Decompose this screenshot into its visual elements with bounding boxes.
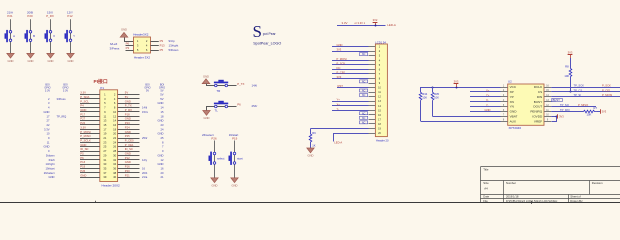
wire Y-: [470, 106, 501, 108]
svg-text:P_MOSI: P_MOSI: [80, 130, 91, 134]
LCD pin numbers: [378, 46, 381, 135]
svg-text:BUSY: BUSY: [553, 98, 561, 102]
svg-text:GND: GND: [125, 152, 131, 156]
net label 21/A / P21: [7, 10, 13, 18]
svg-text:X+: X+: [486, 88, 490, 92]
P1 left GPIO annotation columns: [44, 83, 69, 179]
wire GND: [470, 111, 501, 113]
wire LCD pin 5: [332, 64, 375, 66]
ground (power port, up): [202, 74, 210, 83]
svg-text:24: 24: [161, 127, 164, 131]
net label 20/B / P20: [27, 10, 33, 18]
wire pin5: [126, 50, 134, 52]
power port 3V2: [373, 18, 378, 27]
title block: [480, 167, 620, 203]
wire LCD pin 15: [332, 110, 375, 112]
wire P1 pin 11: [80, 116, 100, 118]
wire CS / TP_CS: [551, 91, 620, 93]
connector P1 Header 20X2: [100, 86, 120, 187]
ground: [211, 178, 218, 188]
wire P1 pin 14: [118, 120, 140, 122]
wire P1 pin 38: [118, 172, 140, 174]
wire P1 pin 12: [118, 116, 140, 118]
no-connect label: [360, 112, 368, 116]
power port 3V3 (right flag): [601, 109, 607, 113]
svg-text:10: 10: [113, 110, 116, 114]
switch TR: [214, 80, 228, 87]
svg-text:3.3V: 3.3V: [80, 91, 86, 95]
svg-text:37: 37: [103, 171, 106, 175]
svg-text:GND: GND: [308, 154, 314, 158]
svg-text:3/Press: 3/Press: [57, 97, 67, 101]
svg-text:P3: P3: [126, 46, 130, 50]
resistor R8 pull-up: [564, 58, 571, 92]
svg-text:GND: GND: [212, 183, 218, 187]
stub LCD pin 11 (NC): [369, 92, 376, 94]
svg-text:XP: XP: [510, 90, 514, 94]
svg-text:16: 16: [113, 123, 116, 127]
svg-text:GND: GND: [232, 183, 238, 187]
svg-text:36: 36: [113, 166, 116, 170]
ground: [27, 53, 34, 63]
svg-text:12/y: 12/y: [142, 158, 148, 162]
svg-text:P12: P12: [125, 156, 130, 160]
svg-text:P_RX: P_RX: [46, 14, 54, 18]
svg-text:GND: GND: [125, 160, 131, 164]
svg-text:30: 30: [113, 153, 116, 157]
svg-text:P_CE0: P_CE0: [125, 138, 134, 142]
svg-text:5V: 5V: [160, 93, 163, 97]
svg-text:19: 19: [103, 132, 106, 136]
svg-text:NC: NC: [362, 80, 366, 83]
svg-text:GND: GND: [158, 101, 164, 105]
wire button X: [50, 19, 52, 53]
svg-text:R34: R34: [422, 92, 427, 96]
svg-text:Y+: Y+: [337, 98, 341, 102]
svg-text:23: 23: [161, 123, 164, 127]
svg-text:19/start: 19/start: [46, 166, 55, 170]
wire VBAT: [433, 116, 501, 118]
switch SW-X: [45, 30, 52, 42]
wire P1 pin 28: [118, 151, 140, 153]
svg-text:GND: GND: [125, 117, 131, 121]
svg-text:BUSY: BUSY: [534, 100, 542, 104]
wire P1 pin 9: [80, 111, 100, 113]
svg-text:R8: R8: [565, 64, 569, 68]
svg-text:27: 27: [47, 119, 50, 123]
svg-text:3V3: 3V3: [559, 114, 564, 118]
svg-text:B: B: [33, 34, 35, 38]
svg-text:25: 25: [103, 145, 106, 149]
wire button B: [30, 19, 32, 53]
svg-text:10: 10: [47, 132, 50, 136]
wire P1 pin 8: [118, 107, 140, 109]
svg-text:10K: 10K: [587, 113, 592, 117]
stub LCD pin 18 (NC): [369, 123, 376, 125]
svg-text:LED-A: LED-A: [387, 23, 396, 27]
svg-text:3.3V: 3.3V: [80, 125, 86, 129]
stub LCD pin 17 (NC): [369, 119, 376, 121]
svg-text:20: 20: [161, 171, 164, 175]
svg-text:P19: P19: [80, 165, 85, 169]
svg-text:3.3V: 3.3V: [342, 21, 348, 25]
switch SW-Y: [65, 30, 72, 42]
wire DCLK / TP_SCK: [551, 87, 620, 89]
wire P1 pin 21: [80, 138, 100, 140]
wire P1 pin 6: [118, 103, 140, 105]
svg-text:P4: P4: [80, 104, 84, 108]
resistor R6: [309, 131, 316, 148]
connector P2 Header 3X2: [133, 33, 150, 60]
wire DIN / TP_SI: [551, 96, 620, 98]
svg-text:21: 21: [161, 175, 164, 179]
svg-text:select: select: [217, 156, 225, 160]
svg-text:DCLK: DCLK: [534, 85, 543, 89]
svg-text:TP_CS: TP_CS: [574, 88, 583, 92]
svg-text:P20: P20: [125, 169, 130, 173]
wire P1 pin 40: [118, 177, 140, 179]
svg-text:15: 15: [161, 110, 164, 114]
wire P1 pin 30: [118, 155, 140, 157]
svg-text:GND: GND: [485, 108, 491, 112]
wire LCD pin 4: [332, 60, 375, 62]
svg-text:14: 14: [113, 119, 116, 123]
svg-text:28: 28: [113, 149, 116, 153]
svg-text:26/select: 26/select: [44, 171, 55, 175]
svg-text:start: start: [237, 156, 243, 160]
svg-text:XN: XN: [510, 100, 514, 104]
svg-text:RST: RST: [338, 84, 344, 88]
svg-text:PENIRQ: PENIRQ: [530, 110, 542, 114]
no-connect label: [360, 89, 368, 93]
svg-text:P26: P26: [80, 169, 85, 173]
svg-text:U2: U2: [508, 80, 512, 84]
svg-text:P6: P6: [80, 156, 84, 160]
P1 right GPIO annotation columns: [142, 83, 165, 179]
wire button select: [214, 141, 216, 178]
wire P1 pin 26: [118, 146, 140, 148]
svg-text:P26: P26: [211, 137, 217, 141]
svg-text:18: 18: [161, 114, 164, 118]
svg-text:16: 16: [161, 166, 164, 170]
no-connect label: [360, 80, 368, 84]
svg-text:P_MOSI: P_MOSI: [602, 93, 612, 97]
svg-text:GND: GND: [8, 59, 14, 63]
svg-text:GND: GND: [44, 110, 50, 114]
svg-text:R6: R6: [312, 131, 316, 135]
power port 3V3: [570, 55, 572, 58]
P1 pin numbers: [103, 93, 116, 180]
wire LCD pin 7: [332, 73, 375, 75]
svg-text:GND: GND: [158, 119, 164, 123]
svg-text:GND: GND: [337, 43, 343, 47]
wire P1 pin 20: [118, 133, 140, 135]
svg-text:38: 38: [113, 171, 116, 175]
svg-text:PI接口: PI接口: [94, 78, 108, 85]
svg-text:GND: GND: [158, 153, 164, 157]
ground (power port, up): [120, 28, 128, 38]
svg-text:6/left: 6/left: [49, 158, 55, 162]
svg-text:P24: P24: [125, 125, 130, 129]
svg-text:YP: YP: [510, 95, 514, 99]
svg-text:5V: 5V: [146, 90, 149, 93]
wire P1 pin 39: [80, 177, 100, 179]
svg-text:GND: GND: [49, 175, 55, 179]
svg-text:3.3V: 3.3V: [44, 127, 50, 131]
no-connect label: [360, 94, 368, 98]
svg-text:25/tr: 25/tr: [252, 104, 258, 108]
wire LCD pin 19 to R6: [311, 129, 376, 135]
svg-text:40: 40: [113, 175, 116, 179]
switch TL: [214, 101, 228, 108]
wire button Y: [70, 19, 72, 53]
svg-text:X: X: [53, 34, 55, 38]
svg-text:5V: 5V: [160, 97, 163, 101]
wire P1 pin 32: [118, 159, 140, 161]
svg-text:3V2: 3V2: [373, 18, 378, 22]
wire button A: [10, 19, 12, 53]
wire P1 pin 13: [80, 120, 100, 122]
net label BUSY: [552, 98, 563, 102]
net label 26/select / P26: [202, 133, 217, 141]
svg-text:22: 22: [47, 123, 50, 127]
svg-text:23: 23: [103, 140, 106, 144]
svg-text:GND: GND: [80, 173, 86, 177]
switch SW-B: [25, 30, 32, 42]
logo SpotPear: [253, 22, 282, 45]
svg-text:3V3: 3V3: [454, 80, 459, 84]
svg-text:P22: P22: [80, 121, 85, 125]
wire LCD pin 8: [332, 78, 375, 80]
stub LCD pin 9 (NC): [369, 83, 376, 85]
svg-text:P_TX: P_TX: [125, 104, 132, 108]
wire AUX: [421, 121, 501, 123]
wire P1 pin 7: [80, 107, 100, 109]
svg-text:R35: R35: [434, 92, 439, 96]
svg-text:GND: GND: [28, 59, 34, 63]
wire P1 pin 27: [80, 151, 100, 153]
wire LCD pin 1: [332, 46, 375, 48]
wire VREF join: [552, 117, 557, 122]
svg-text:16: 16: [142, 166, 145, 170]
wire pin4: [151, 45, 159, 47]
wire LCD pin 13: [332, 101, 375, 103]
wire P1 pin 18: [118, 129, 140, 131]
svg-text:P25: P25: [125, 134, 130, 138]
svg-text:P_TX: P_TX: [237, 82, 244, 86]
svg-text:3V3: 3V3: [337, 75, 342, 79]
svg-text:20/b: 20/b: [142, 171, 148, 175]
wire LCD pin 14: [332, 105, 375, 107]
connector LCD1 Header 20: [375, 41, 389, 143]
svg-text:LED-A: LED-A: [334, 141, 342, 145]
svg-text:Number: Number: [506, 181, 516, 185]
wire PENIRQ / TP_IRQ: [551, 111, 583, 113]
svg-text:P_SCK: P_SCK: [602, 83, 611, 87]
svg-text:15/rx: 15/rx: [142, 110, 149, 114]
svg-text:3V3: 3V3: [337, 48, 342, 52]
ground: [7, 53, 14, 63]
svg-text:GND: GND: [158, 162, 164, 166]
wire pin6: [151, 50, 159, 52]
svg-text:DIN: DIN: [537, 95, 542, 99]
svg-text:3V3: 3V3: [568, 51, 573, 55]
svg-text:13/right: 13/right: [46, 162, 55, 166]
svg-text:Y+: Y+: [486, 93, 490, 97]
svg-text:P_RX: P_RX: [125, 108, 132, 112]
svg-text:P6: P6: [126, 42, 130, 46]
svg-text:3/Press: 3/Press: [110, 47, 120, 51]
annotation 6/Left 3/Press: [110, 42, 120, 51]
wire TR: [207, 84, 237, 86]
svg-text:S: S: [253, 22, 262, 41]
svg-text:IOVDD: IOVDD: [532, 115, 543, 119]
svg-text:GND: GND: [121, 28, 127, 32]
svg-text:24: 24: [113, 140, 116, 144]
svg-text:33: 33: [103, 162, 106, 166]
net label 12/Y / P12: [67, 10, 73, 18]
switch SW-A: [5, 30, 12, 42]
svg-text:P_SCK: P_SCK: [337, 61, 346, 65]
svg-text:TP_IRQ: TP_IRQ: [560, 108, 570, 112]
ground: [203, 111, 210, 121]
svg-text:10K: 10K: [434, 96, 439, 100]
switch SW-select: [209, 152, 216, 165]
wire P1 pin 16: [118, 124, 140, 126]
wire P1 pin 36: [118, 168, 140, 170]
svg-text:P_MISO: P_MISO: [578, 103, 588, 107]
svg-text:Header3X2: Header3X2: [133, 33, 149, 37]
svg-text:GND: GND: [203, 74, 209, 78]
svg-text:GND: GND: [125, 99, 131, 103]
svg-text:5V: 5V: [125, 91, 129, 95]
no-connect label: [360, 121, 368, 125]
wire P1 pin 19: [80, 133, 100, 135]
wire P1 pin 33: [80, 164, 100, 166]
svg-text:Header 20X2: Header 20X2: [102, 183, 121, 187]
svg-text:P_MISO: P_MISO: [80, 134, 90, 138]
svg-text:22: 22: [113, 136, 116, 140]
svg-text:GND: GND: [44, 145, 50, 149]
svg-text:11: 11: [104, 114, 107, 118]
svg-text:P17: P17: [80, 112, 85, 116]
U2 pin stubs and numbers: [501, 85, 552, 121]
svg-text:21/a: 21/a: [142, 175, 148, 179]
wire P1 pin 10: [118, 111, 140, 113]
svg-text:VCC: VCC: [510, 85, 517, 89]
svg-text:Y: Y: [73, 34, 75, 38]
wire button start: [234, 141, 236, 178]
svg-text:P18: P18: [125, 112, 130, 116]
svg-text:P_SCLK: P_SCLK: [80, 138, 91, 142]
svg-text:Size: Size: [483, 181, 489, 185]
stub LCD pin 12 (NC): [369, 96, 376, 98]
svg-text:TP_SO: TP_SO: [560, 103, 569, 107]
resistor R35: [431, 87, 439, 116]
sheet border bottom: [0, 201, 620, 204]
svg-text:P21: P21: [7, 14, 13, 18]
svg-text:P27: P27: [80, 117, 85, 121]
svg-text:3V3: 3V3: [602, 110, 607, 114]
svg-text:5/Down: 5/Down: [169, 48, 179, 52]
svg-text:GND: GND: [80, 143, 86, 147]
svg-text:14/tl: 14/tl: [142, 106, 147, 110]
svg-text:P23: P23: [125, 121, 130, 125]
svg-text:27: 27: [103, 149, 106, 153]
svg-text:DC: DC: [337, 66, 341, 70]
svg-text:GND: GND: [68, 59, 74, 63]
stub BUSY: [551, 101, 556, 103]
wire LCD pin 6: [332, 69, 375, 71]
svg-text:14: 14: [161, 106, 164, 110]
svg-text:YN: YN: [510, 105, 514, 109]
wire P1 pin 34: [118, 164, 140, 166]
wire P1 pin 5: [80, 103, 100, 105]
svg-text:DOUT: DOUT: [533, 105, 542, 109]
svg-text:13/right: 13/right: [169, 44, 179, 48]
svg-text:26: 26: [113, 145, 116, 149]
wire P1 pin 24: [118, 142, 140, 144]
svg-text:NC: NC: [362, 112, 366, 115]
svg-text:Title: Title: [483, 167, 489, 171]
svg-text:TR: TR: [217, 89, 221, 93]
wire IOVDD: [551, 116, 557, 118]
wire P1 pin 17: [80, 129, 100, 131]
svg-text:10K: 10K: [564, 74, 569, 78]
wire P1 pin 1: [80, 94, 100, 96]
svg-text:GND: GND: [510, 110, 518, 114]
svg-text:NC: NC: [362, 53, 366, 56]
wire LED-A supply: [337, 25, 386, 27]
svg-text:12: 12: [161, 158, 164, 162]
wire pin2: [151, 41, 159, 43]
wire TL: [207, 107, 237, 111]
svg-text:NC: NC: [362, 94, 366, 97]
wire P1 pin 22: [118, 138, 140, 140]
svg-text:3.3V: 3.3V: [63, 90, 68, 93]
resistor R7: [584, 106, 601, 117]
svg-text:SpotPear_LOGO: SpotPear_LOGO: [253, 41, 281, 45]
wire P1 pin 25: [80, 146, 100, 148]
net label 19/start / P19: [229, 133, 239, 141]
svg-text:P_CE1: P_CE1: [602, 88, 611, 92]
svg-text:X-: X-: [486, 98, 489, 102]
wire P1 pin 2: [118, 94, 140, 96]
svg-text:GND: GND: [204, 116, 210, 120]
ground: [47, 53, 54, 63]
svg-text:31: 31: [103, 158, 106, 162]
wire X-: [470, 101, 501, 103]
svg-text:Y-: Y-: [486, 103, 489, 107]
no-connect label: [360, 116, 368, 120]
svg-text:ID_SC: ID_SC: [125, 147, 133, 151]
wire X+: [470, 91, 501, 93]
wire GND to pin1: [125, 38, 134, 42]
svg-text:P12: P12: [67, 14, 73, 18]
wire LCD pin 20 (LED-A): [334, 134, 376, 142]
svg-text:P5: P5: [80, 152, 84, 156]
svg-text:20: 20: [113, 132, 116, 136]
svg-text:Header 3X2: Header 3X2: [134, 55, 150, 59]
svg-text:NC: NC: [362, 121, 366, 124]
ground: [67, 53, 74, 63]
svg-text:TL: TL: [215, 109, 219, 113]
svg-text:5/down: 5/down: [46, 153, 55, 157]
svg-text:P6: P6: [237, 103, 241, 107]
svg-text:NC: NC: [362, 117, 366, 120]
svg-text:25: 25: [161, 136, 164, 140]
svg-text:5V: 5V: [160, 90, 163, 93]
